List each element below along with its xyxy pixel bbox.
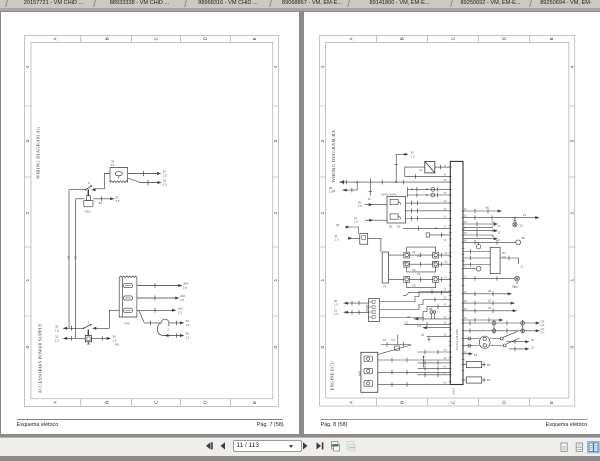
S1 contact dots — [85, 189, 87, 191]
svg-text:XX: XX — [485, 206, 489, 210]
svg-text:ENGINE ECU: ENGINE ECU — [329, 361, 334, 391]
svg-text:1.5: 1.5 — [162, 174, 166, 178]
ECU lower pin wire 5 — [417, 374, 450, 376]
svg-text:F1: F1 — [111, 163, 115, 167]
previous view icon — [332, 442, 340, 452]
lambda sensor wires — [463, 339, 479, 346]
frame column ticks top — [81, 35, 231, 42]
prev page button — [221, 442, 226, 449]
svg-text:1.5: 1.5 — [334, 303, 338, 307]
frame column letters top — [52, 36, 257, 40]
CAN twist symbol 2 — [521, 320, 523, 334]
drawing frame outer border — [319, 35, 574, 406]
svg-text:31: 31 — [531, 345, 535, 349]
diode module D1 — [424, 161, 434, 173]
svg-text:Pág. 8 (58): Pág. 8 (58) — [320, 422, 347, 428]
injector bridge bottom — [406, 282, 435, 287]
throttle module box T4 — [382, 252, 388, 283]
single page view icon — [561, 443, 567, 451]
pin number texture left of ECU — [443, 164, 447, 384]
svg-text:B9: B9 — [521, 236, 525, 240]
sensor A3 input wire — [351, 237, 360, 239]
frame row ticks left — [24, 106, 31, 316]
svg-text:N-: N- — [540, 331, 543, 335]
svg-text:2: 2 — [25, 212, 31, 215]
vertical wire V1 — [68, 190, 70, 329]
fuse 3 — [124, 308, 133, 312]
H87 output wire 3 — [377, 384, 450, 386]
svg-text:31: 31 — [488, 306, 492, 310]
ECU right short stub r17 — [463, 353, 471, 355]
svg-text:44: 44 — [443, 349, 446, 352]
ECU right wire r1 — [463, 210, 500, 212]
right page (page 8) — [304, 12, 600, 434]
85XB input wire 1 — [343, 302, 368, 304]
fuse 1 — [124, 283, 133, 287]
svg-text:31: 31 — [497, 239, 500, 242]
svg-text:2.5: 2.5 — [183, 285, 187, 289]
lambda output wires — [490, 339, 503, 346]
input wire a1 — [364, 204, 387, 206]
frame row numbers right — [569, 66, 575, 349]
frame column letters bottom — [52, 400, 257, 404]
bus drop wire to left arrow — [342, 182, 357, 190]
svg-text:A: A — [348, 36, 354, 40]
relay K1 body — [86, 196, 90, 201]
module to ECU wire 2 — [405, 210, 450, 212]
svg-text:24: 24 — [443, 316, 446, 319]
svg-text:Esquema elétrico: Esquema elétrico — [17, 422, 59, 428]
svg-text:4: 4 — [320, 66, 326, 69]
wire D1 to ECU pin — [434, 166, 450, 168]
frame row ticks right — [568, 106, 574, 316]
ECU right wire r10 — [463, 293, 510, 295]
ECU pin ticks left — [448, 167, 451, 381]
drawing frame inner border — [325, 42, 568, 398]
injector symbol 1 — [390, 199, 398, 204]
sensor wire w1 — [414, 318, 450, 320]
svg-text:22: 22 — [443, 200, 446, 203]
injector return wire — [403, 293, 450, 296]
svg-text:E: E — [252, 401, 258, 404]
svg-text:46: 46 — [443, 365, 446, 368]
svg-text:1.5: 1.5 — [410, 154, 414, 158]
svg-text:12: 12 — [405, 321, 409, 325]
ECU right wire r12 — [463, 310, 515, 312]
85XB input wire 2 — [343, 311, 368, 313]
H87 output wire 2 — [377, 371, 450, 373]
input wire a2 — [365, 219, 387, 221]
injector Y6 — [432, 277, 438, 283]
svg-text:84: 84 — [464, 317, 467, 320]
wire D1 loop to ECU pin 2 — [404, 167, 450, 176]
svg-text:63: 63 — [464, 221, 467, 224]
wire from fuse 3 to bottom node — [109, 310, 119, 328]
svg-text:3: 3 — [569, 140, 575, 143]
svg-text:62: 62 — [464, 215, 467, 218]
svg-text:07: 07 — [444, 276, 447, 279]
svg-text:71: 71 — [464, 266, 467, 269]
svg-text:55: 55 — [443, 179, 446, 182]
svg-text:2.5: 2.5 — [180, 298, 184, 302]
85XB step wire 3 to ECU — [379, 307, 450, 318]
svg-text:A: A — [52, 36, 58, 40]
svg-text:B: B — [104, 401, 110, 404]
module to ECU wire 3 — [405, 218, 450, 220]
frame column letters top — [348, 36, 554, 40]
svg-text:06: 06 — [444, 261, 447, 264]
frame column ticks bottom — [81, 399, 231, 406]
svg-text:1.5: 1.5 — [115, 199, 119, 203]
ECU right wire r11 — [463, 302, 513, 304]
arrowheads — [157, 172, 161, 175]
svg-text:Esquema elétrico: Esquema elétrico — [545, 422, 587, 428]
svg-text:1: 1 — [88, 320, 90, 324]
pilot valve box — [426, 233, 429, 237]
CAN bus wire high — [463, 322, 538, 324]
svg-text:C: C — [450, 36, 456, 40]
bus stub with tick — [369, 186, 371, 196]
component B1 connector box — [110, 168, 128, 183]
svg-text:B: B — [104, 37, 110, 40]
svg-text:X5: X5 — [412, 283, 416, 287]
svg-text:D: D — [202, 400, 208, 404]
svg-text:WIRING DIAGRAM BA: WIRING DIAGRAM BA — [330, 129, 335, 182]
first page button — [206, 442, 211, 449]
H87 diagonal wire — [377, 345, 410, 355]
svg-text:Control unit EDC: Control unit EDC — [455, 329, 459, 350]
injector Y4 — [432, 261, 438, 267]
svg-text:2.5: 2.5 — [178, 310, 182, 314]
drop wire from fuse wire 3 — [139, 310, 144, 322]
svg-text:1.5: 1.5 — [334, 238, 338, 242]
svg-text:1.5: 1.5 — [358, 204, 362, 208]
svg-text:K10: K10 — [85, 210, 91, 214]
svg-text:ACCESSORIES POWER SUPPLY: ACCESSORIES POWER SUPPLY — [37, 323, 42, 394]
module to ECU wire 1 — [405, 202, 450, 204]
sensor circle c2 — [463, 268, 476, 270]
svg-text:09: 09 — [443, 208, 446, 211]
svg-text:31: 31 — [332, 189, 336, 193]
temp sensor circle left — [477, 242, 479, 244]
injector driver module box — [387, 197, 406, 224]
CAN bus wire low — [463, 330, 538, 332]
ECU lower pin wire 3 — [417, 362, 450, 364]
twisted pair wire 2 to ECU — [407, 194, 450, 196]
ECU right wire r5 — [463, 234, 493, 236]
svg-text:1: 1 — [569, 279, 575, 282]
B1 lamp symbol — [115, 172, 122, 176]
svg-text:65: 65 — [464, 232, 467, 235]
vertical wire V2 — [76, 199, 85, 339]
svg-text:E: E — [252, 37, 258, 40]
svg-text:B2: B2 — [389, 225, 393, 229]
svg-text:A123: A123 — [451, 388, 455, 395]
svg-text:15: 15 — [491, 228, 495, 232]
85XB step wire 2 to ECU — [379, 300, 450, 310]
svg-text:12: 12 — [383, 338, 387, 342]
svg-text:B: B — [399, 401, 405, 404]
fuse wire 2 to arrow — [137, 297, 175, 299]
svg-text:4: 4 — [25, 66, 31, 69]
ECU pin ticks right — [461, 211, 464, 380]
svg-text:A: A — [348, 400, 354, 404]
H87 element 1 — [364, 356, 373, 362]
knock sensor circles — [430, 311, 433, 314]
wire from vertical V1 to S1 — [69, 189, 86, 191]
svg-text:15: 15 — [488, 298, 492, 302]
svg-text:30: 30 — [531, 338, 535, 342]
H87 element 3 — [364, 381, 373, 387]
svg-text:05: 05 — [444, 252, 447, 255]
ECU pin junction dots — [449, 181, 451, 373]
ECU right wire r13 — [463, 319, 502, 321]
svg-text:H87: H87 — [357, 370, 361, 376]
frame row numbers left — [25, 66, 31, 349]
tab bar — [0, 0, 600, 8]
left page (page 7) — [1, 12, 299, 434]
svg-text:31: 31 — [407, 315, 411, 319]
curved return wire — [157, 323, 164, 336]
sensor box input wires — [463, 252, 490, 265]
svg-text:1.5: 1.5 — [185, 336, 189, 340]
svg-text:R1: R1 — [487, 363, 491, 367]
svg-text:15: 15 — [421, 333, 425, 337]
sensor wire w2 — [404, 323, 450, 325]
svg-text:31: 31 — [74, 255, 78, 259]
svg-text:25: 25 — [443, 321, 446, 324]
svg-text:15: 15 — [367, 197, 371, 201]
svg-text:2: 2 — [320, 212, 326, 215]
footer separator line — [17, 418, 283, 420]
svg-text:82: 82 — [464, 300, 467, 303]
svg-text:72: 72 — [464, 276, 467, 279]
twisted pair wire 1 to ECU — [407, 188, 450, 190]
jumper wire with hop — [144, 322, 161, 324]
tiny wire/value labels — [55, 160, 190, 347]
ECU lower pin wire 4 — [417, 367, 450, 369]
injector bridge top — [406, 247, 435, 252]
ECU right wire r3b — [463, 226, 493, 228]
svg-text:34: 34 — [443, 173, 446, 176]
sensor A3 output to throttle module — [367, 238, 380, 252]
resistor R1 — [466, 362, 481, 368]
svg-text:C: C — [153, 36, 159, 40]
svg-text:X1: X1 — [412, 250, 416, 254]
svg-text:21: 21 — [520, 266, 523, 269]
svg-text:0.5: 0.5 — [417, 324, 421, 328]
frame row numbers left — [320, 66, 326, 349]
svg-text:31: 31 — [491, 234, 495, 238]
svg-text:1.5: 1.5 — [55, 338, 59, 342]
ECU right wire r9 to sensor circle — [463, 278, 515, 280]
H87 output wire 1 — [377, 359, 450, 361]
svg-text:21: 21 — [523, 213, 527, 217]
main supply bus — [339, 181, 450, 183]
svg-text:B: B — [399, 37, 405, 40]
frame row numbers right — [273, 66, 279, 349]
frame column ticks bottom — [376, 398, 529, 406]
ECU right wire r6 to sensor circle — [463, 241, 516, 243]
svg-text:Y62: Y62 — [431, 260, 436, 264]
sensor X2 body — [85, 335, 91, 341]
sensor A3 input wire upper — [348, 227, 359, 234]
CAN twist symbol 1 — [493, 320, 495, 334]
S2 contact dots — [83, 327, 85, 329]
scrolling page view icon — [576, 443, 582, 451]
band under tabs — [0, 8, 600, 12]
ECU lower pin wire 1 — [417, 351, 450, 353]
ECU right wire r4 — [463, 230, 496, 232]
svg-text:33: 33 — [443, 239, 446, 242]
wire W4 from B1 to switch S1 — [93, 174, 110, 189]
svg-text:C: C — [450, 400, 456, 404]
mid vertical wire — [396, 335, 398, 345]
svg-text:2: 2 — [273, 212, 279, 215]
svg-text:XX: XX — [502, 255, 506, 259]
drawing frame inner border — [31, 42, 273, 398]
svg-text:D: D — [501, 400, 507, 404]
svg-text:1.5: 1.5 — [354, 219, 358, 223]
frame row ticks left — [319, 106, 325, 316]
svg-text:V1: V1 — [419, 168, 423, 172]
svg-text:1.5: 1.5 — [55, 328, 59, 332]
svg-text:1.5: 1.5 — [185, 323, 189, 327]
bottom wire W5 — [63, 327, 109, 329]
svg-text:E: E — [549, 37, 555, 40]
sensor box B6 — [490, 247, 500, 273]
pin number texture right of ECU — [464, 208, 524, 354]
frame column ticks top — [376, 35, 529, 42]
glow unit H87 box — [360, 352, 377, 392]
bottom wire W6 left — [63, 337, 85, 339]
two page view icon (selected) — [588, 442, 600, 453]
arrowheads — [404, 153, 408, 156]
injector Y2 — [432, 252, 438, 258]
injector row wires to ECU — [409, 254, 450, 256]
svg-text:3: 3 — [320, 140, 326, 143]
bottom toolbar — [0, 437, 600, 456]
bottom wire W6 right — [91, 337, 108, 339]
svg-text:30: 30 — [397, 225, 401, 229]
switch S1 blade — [86, 186, 92, 190]
svg-text:A: A — [52, 400, 58, 404]
svg-text:3: 3 — [273, 140, 279, 143]
svg-text:53: 53 — [443, 304, 446, 307]
ECU main connector box U1 — [450, 161, 463, 384]
frame column letters bottom — [348, 400, 554, 404]
junction dots — [339, 153, 540, 358]
svg-text:45: 45 — [443, 357, 446, 360]
sensor A3 body — [359, 234, 367, 245]
svg-text:15: 15 — [474, 353, 478, 357]
svg-text:18: 18 — [443, 192, 446, 195]
svg-text:WIRING DIAGRAM AG: WIRING DIAGRAM AG — [35, 126, 40, 179]
relay K1 stub — [87, 190, 89, 196]
svg-text:B8: B8 — [429, 307, 433, 311]
tiny labels right page — [329, 151, 545, 383]
svg-text:81: 81 — [464, 291, 467, 294]
svg-text:3: 3 — [25, 140, 31, 143]
footer separator line — [320, 418, 587, 420]
frame row ticks right — [273, 106, 279, 316]
svg-text:C: C — [153, 400, 159, 404]
svg-text:1: 1 — [320, 279, 326, 282]
sensor wire w3 — [422, 327, 450, 329]
svg-text:0: 0 — [569, 346, 575, 349]
svg-text:1: 1 — [25, 278, 31, 281]
85XB step wire 1 to ECU — [379, 292, 450, 302]
fuse wire 3 to arrow — [137, 309, 172, 311]
svg-text:30: 30 — [336, 223, 340, 227]
injector Y3 — [403, 261, 409, 267]
ground stub under X2 — [87, 342, 90, 344]
svg-text:D: D — [501, 36, 507, 40]
svg-text:83: 83 — [464, 308, 467, 311]
sensor wire w4 — [426, 337, 450, 342]
fuse wire 1 to arrow — [137, 284, 178, 286]
lambda sensor body — [479, 336, 490, 348]
svg-text:0: 0 — [273, 345, 279, 348]
svg-text:38: 38 — [443, 334, 446, 337]
wire W1 from B1 pin to right arrow — [127, 173, 156, 175]
svg-text:41: 41 — [443, 216, 446, 219]
indicator X-circle on r2 drop — [512, 222, 516, 226]
svg-text:51: 51 — [443, 289, 446, 292]
switch S2 blade — [83, 324, 90, 328]
svg-text:31: 31 — [67, 255, 71, 259]
svg-text:0: 0 — [320, 346, 326, 349]
last page button — [317, 442, 322, 449]
svg-text:5: 5 — [88, 181, 90, 185]
svg-text:91: 91 — [464, 351, 467, 354]
svg-text:X2: X2 — [417, 254, 421, 258]
svg-text:1.5: 1.5 — [334, 312, 338, 316]
lower bundle vertical — [422, 357, 424, 368]
svg-text:52: 52 — [443, 297, 446, 300]
mid sensor wire — [381, 344, 411, 346]
svg-text:E1: E1 — [520, 225, 524, 228]
wire W2 from B1 lower pin — [127, 178, 157, 182]
next page button — [303, 442, 308, 449]
S2 lower stub — [87, 329, 89, 335]
svg-text:48: 48 — [443, 382, 446, 385]
svg-text:XXXX XXXX: XXXX XXXX — [381, 193, 397, 197]
svg-text:X4: X4 — [417, 272, 421, 276]
sensor box output wire — [500, 258, 518, 264]
svg-text:1.5: 1.5 — [491, 224, 495, 228]
drawing frame outer border — [24, 35, 278, 406]
connector block 85XB — [368, 299, 379, 322]
jumper stub label tick — [168, 323, 170, 327]
wire above injector bank — [403, 227, 450, 229]
svg-text:Y61: Y61 — [402, 260, 407, 264]
next view icon (disabled) — [347, 442, 355, 452]
svg-text:1.5: 1.5 — [163, 183, 167, 187]
svg-text:30: 30 — [98, 201, 102, 205]
throttle module wires to injectors — [388, 255, 403, 279]
fuse 2 — [124, 296, 133, 300]
svg-text:4: 4 — [569, 66, 575, 69]
svg-text:R2: R2 — [487, 378, 491, 382]
svg-text:30: 30 — [497, 225, 500, 228]
svg-text:66: 66 — [464, 239, 467, 242]
svg-text:D: D — [202, 36, 208, 40]
svg-text:30: 30 — [488, 289, 492, 293]
svg-text:2: 2 — [569, 212, 575, 215]
top feed wire with arrow — [396, 153, 407, 155]
dropdown caret in page box — [290, 445, 294, 447]
